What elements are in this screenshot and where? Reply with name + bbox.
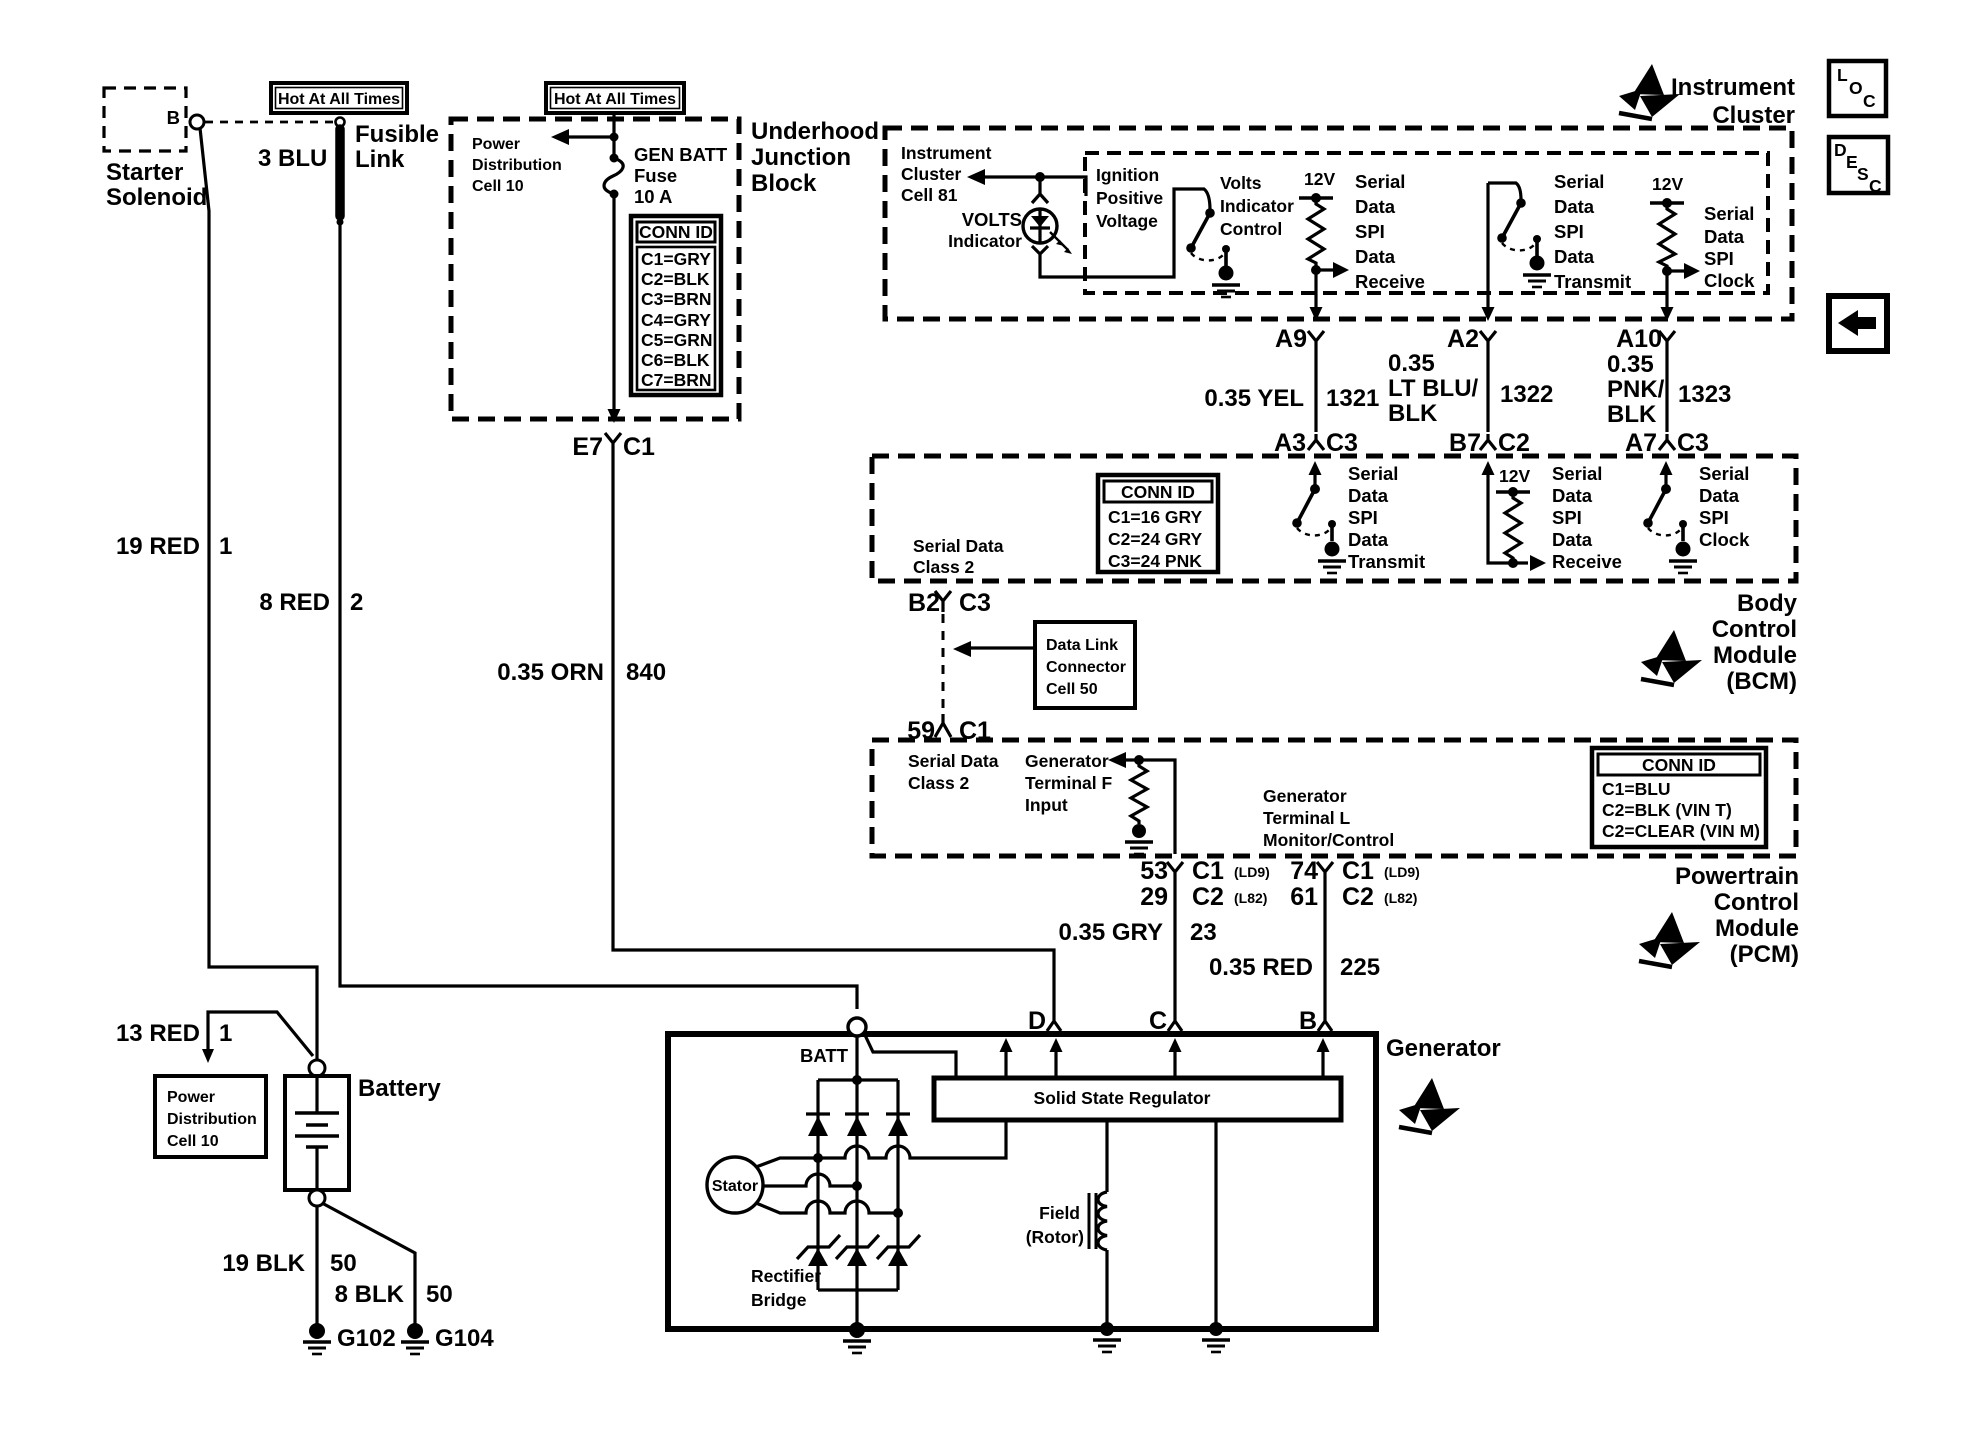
svg-text:Class 2: Class 2 (913, 557, 975, 577)
svg-text:Underhood: Underhood (751, 118, 879, 145)
svg-text:13 RED: 13 RED (116, 1020, 200, 1047)
svg-text:50: 50 (426, 1281, 453, 1308)
svg-text:C3: C3 (959, 589, 991, 617)
svg-text:SPI: SPI (1704, 248, 1734, 269)
svg-text:2: 2 (350, 589, 363, 616)
svg-text:S: S (1857, 164, 1869, 184)
node fusible link top circle (336, 118, 345, 127)
wire 0.35 GRY 23 (1173, 883, 1176, 1012)
svg-text:C1: C1 (1342, 857, 1374, 885)
wire 8 RED from fusible link down and right to BATT (340, 222, 857, 1009)
avalanche diode lower right (877, 1235, 920, 1259)
svg-text:CONN ID: CONN ID (1642, 755, 1716, 775)
svg-text:Connector: Connector (1046, 659, 1126, 676)
wire serial data class 2 dashed (942, 614, 945, 712)
wire LED to volts control switch (1040, 189, 1210, 277)
svg-text:Transmit: Transmit (1554, 271, 1631, 292)
svg-text:0.35 YEL: 0.35 YEL (1204, 385, 1304, 412)
svg-text:A2: A2 (1447, 325, 1479, 353)
svg-text:8 BLK: 8 BLK (335, 1281, 405, 1308)
VOLTS indicator LED (1023, 209, 1057, 243)
resistor 12V serial data receive (1299, 196, 1333, 199)
svg-text:1: 1 (219, 1020, 232, 1047)
svg-text:C4=GRY: C4=GRY (641, 310, 711, 330)
svg-text:(Rotor): (Rotor) (1026, 1227, 1084, 1247)
wire 19 BLK battery to G102 (315, 1206, 318, 1324)
svg-text:C6=BLK: C6=BLK (641, 350, 710, 370)
svg-text:Data: Data (1348, 529, 1389, 550)
conn id table UJB (631, 216, 721, 395)
wire to A2 (1486, 183, 1489, 310)
fuse GEN BATT 10A (610, 154, 619, 163)
wire 13 RED tap from battery positive (208, 1012, 313, 1056)
svg-text:BLK: BLK (1388, 400, 1438, 427)
svg-text:C2: C2 (1192, 883, 1224, 911)
svg-text:Serial Data: Serial Data (913, 536, 1004, 556)
svg-text:Serial: Serial (1348, 463, 1398, 484)
svg-text:CONN ID: CONN ID (639, 222, 713, 242)
hot at all times label 2 (546, 83, 684, 113)
svg-text:C1: C1 (1192, 857, 1224, 885)
regulator ground wire (1214, 1120, 1217, 1329)
svg-text:(PCM): (PCM) (1730, 941, 1799, 968)
svg-text:Control: Control (1712, 616, 1797, 643)
wire to A10 (1665, 271, 1668, 310)
regulator B stub arrow (1321, 1048, 1324, 1078)
svg-text:Generator: Generator (1025, 751, 1109, 771)
LOC reference box (1829, 61, 1886, 116)
svg-text:BLK: BLK (1607, 401, 1657, 428)
instrument cluster inner box (1085, 153, 1768, 293)
svg-text:0.35 ORN: 0.35 ORN (497, 659, 604, 686)
svg-text:0.35 RED: 0.35 RED (1209, 954, 1313, 981)
svg-text:SPI: SPI (1554, 221, 1584, 242)
svg-text:Data: Data (1552, 529, 1593, 550)
svg-text:10 A: 10 A (634, 186, 672, 207)
svg-text:Receive: Receive (1355, 271, 1425, 292)
svg-text:Stator: Stator (712, 1178, 758, 1195)
battery cell plates (315, 1076, 318, 1113)
svg-text:E: E (1846, 152, 1858, 172)
svg-text:Indicator: Indicator (948, 231, 1022, 251)
instrument cluster outer box (885, 128, 1792, 319)
wire 19 RED from solenoid down to battery (200, 128, 317, 1060)
svg-text:Cluster: Cluster (1712, 102, 1795, 129)
svg-text:Junction: Junction (751, 144, 851, 171)
power distribution cell 10 box (155, 1076, 266, 1157)
svg-text:C2=BLK: C2=BLK (641, 269, 710, 289)
svg-text:CONN ID: CONN ID (1121, 482, 1195, 502)
arrow data link connector to wire (968, 646, 1035, 649)
svg-text:BATT: BATT (800, 1045, 849, 1066)
svg-text:3 BLU: 3 BLU (258, 145, 327, 172)
svg-text:Solid State Regulator: Solid State Regulator (1034, 1088, 1211, 1108)
svg-text:Clock: Clock (1699, 529, 1750, 550)
svg-text:Module: Module (1715, 915, 1799, 942)
diode upper right (886, 1112, 910, 1115)
svg-text:0.35: 0.35 (1607, 351, 1654, 378)
svg-text:LT BLU/: LT BLU/ (1388, 375, 1479, 402)
connector at volts indicator bottom (1032, 246, 1048, 264)
svg-text:Rectifier: Rectifier (751, 1266, 821, 1286)
stator circle (707, 1157, 763, 1213)
battery negative circle (309, 1190, 325, 1206)
svg-text:Block: Block (751, 170, 817, 197)
resistor terminal F pull-up (1131, 760, 1147, 824)
stator phase A wire to regulator (756, 1120, 1006, 1167)
svg-text:23: 23 (1190, 919, 1217, 946)
svg-text:Control: Control (1714, 889, 1799, 916)
svg-text:12V: 12V (1304, 169, 1335, 189)
svg-text:Field: Field (1039, 1203, 1080, 1223)
svg-text:19 RED: 19 RED (116, 533, 200, 560)
svg-text:B: B (1299, 1007, 1317, 1035)
svg-text:C2: C2 (1498, 429, 1530, 457)
svg-text:C: C (1863, 91, 1876, 111)
svg-text:Generator: Generator (1263, 786, 1347, 806)
svg-text:C1=BLU: C1=BLU (1602, 779, 1671, 799)
svg-text:Cluster: Cluster (901, 164, 961, 184)
svg-text:C: C (1869, 176, 1882, 196)
svg-text:Terminal L: Terminal L (1263, 808, 1351, 828)
svg-text:GEN BATT: GEN BATT (634, 144, 728, 165)
svg-text:PNK/: PNK/ (1607, 376, 1665, 403)
rectifier bridge left leg (816, 1080, 819, 1290)
generator box (668, 1034, 1376, 1329)
back arrow box (1829, 296, 1887, 351)
wire 0.35 LT BLU/BLK 1322 (1486, 352, 1489, 432)
svg-text:Hot At All Times: Hot At All Times (278, 91, 400, 108)
wire 0.35 YEL 1321 (1314, 352, 1317, 432)
svg-text:Cell 10: Cell 10 (472, 178, 524, 195)
svg-text:Cell 10: Cell 10 (167, 1133, 219, 1150)
svg-text:Voltage: Voltage (1096, 211, 1158, 231)
svg-text:C2=24 GRY: C2=24 GRY (1108, 529, 1203, 549)
svg-text:Battery: Battery (358, 1075, 441, 1102)
ESD symbol PCM (1639, 912, 1700, 967)
svg-text:Serial: Serial (1699, 463, 1749, 484)
svg-text:E7: E7 (572, 433, 603, 461)
node B terminal circle (190, 115, 204, 129)
battery box (285, 1076, 349, 1190)
svg-text:Class 2: Class 2 (908, 773, 970, 793)
svg-text:C2: C2 (1342, 883, 1374, 911)
generator terminal F input arrow (1123, 760, 1175, 854)
avalanche diode lower mid (836, 1235, 879, 1259)
ESD symbol BCM (1641, 630, 1702, 685)
rectifier bridge bottom bus (818, 1288, 898, 1291)
powertrain control module box (872, 740, 1796, 856)
hot at all times label 1 (271, 83, 407, 113)
svg-text:Indicator: Indicator (1220, 196, 1294, 216)
svg-text:840: 840 (626, 659, 666, 686)
svg-text:C1=GRY: C1=GRY (641, 249, 711, 269)
svg-text:Solenoid: Solenoid (106, 184, 207, 211)
svg-text:Data: Data (1552, 485, 1593, 506)
svg-text:SPI: SPI (1355, 221, 1385, 242)
svg-text:G104: G104 (435, 1325, 494, 1352)
svg-text:C2=CLEAR (VIN M): C2=CLEAR (VIN M) (1602, 821, 1760, 841)
svg-text:50: 50 (330, 1250, 357, 1277)
wire BATT into rectifier bridge (855, 1036, 858, 1080)
svg-text:D: D (1028, 1007, 1046, 1035)
ground G102 (309, 1323, 325, 1339)
svg-text:SPI: SPI (1552, 507, 1582, 528)
wire fuse to E7 (612, 194, 615, 412)
svg-text:61: 61 (1290, 883, 1318, 911)
svg-text:SPI: SPI (1699, 507, 1729, 528)
svg-text:Distribution: Distribution (167, 1111, 257, 1128)
data link connector cell 50 box (1035, 622, 1135, 708)
resistor 12V serial data clock (1650, 201, 1684, 204)
svg-text:74: 74 (1290, 857, 1318, 885)
svg-text:Data: Data (1554, 246, 1595, 267)
avalanche diode lower left (797, 1235, 840, 1259)
svg-text:(BCM): (BCM) (1726, 668, 1797, 695)
svg-text:A3: A3 (1274, 429, 1306, 457)
switch serial data transmit (IC) (1488, 183, 1521, 200)
svg-text:Module: Module (1713, 642, 1797, 669)
svg-text:Power: Power (167, 1089, 215, 1106)
solid state regulator box (934, 1078, 1341, 1120)
svg-text:B7: B7 (1449, 429, 1481, 457)
svg-text:Serial: Serial (1554, 171, 1604, 192)
power distribution feed arrow (566, 135, 614, 138)
DESC reference box (1829, 137, 1888, 193)
svg-text:12V: 12V (1652, 174, 1683, 194)
svg-text:C3: C3 (1677, 429, 1709, 457)
wire from hot feed into junction block (612, 113, 615, 155)
svg-text:C7=BRN: C7=BRN (641, 370, 712, 390)
svg-text:12V: 12V (1499, 466, 1530, 486)
svg-text:SPI: SPI (1348, 507, 1378, 528)
svg-text:Starter: Starter (106, 159, 183, 186)
svg-text:C1=16 GRY: C1=16 GRY (1108, 507, 1203, 527)
rectifier bridge right leg (896, 1080, 899, 1290)
svg-text:Serial Data: Serial Data (908, 751, 999, 771)
regulator sense stub arrow (1004, 1048, 1007, 1078)
rectifier bridge ground wire (855, 1290, 858, 1329)
svg-text:Control: Control (1220, 219, 1282, 239)
svg-text:Monitor/Control: Monitor/Control (1263, 830, 1394, 850)
wire 8 BLK battery to G104 (322, 1203, 415, 1324)
svg-text:225: 225 (1340, 954, 1380, 981)
fusible link element (335, 129, 345, 216)
ESD symbol instrument cluster (1619, 64, 1680, 119)
svg-text:C1: C1 (623, 433, 655, 461)
svg-text:A7: A7 (1625, 429, 1657, 457)
wire 0.35 RED 225 (1323, 883, 1326, 1012)
svg-text:Distribution: Distribution (472, 157, 562, 174)
body control module box (872, 456, 1796, 581)
svg-text:L: L (1837, 65, 1848, 85)
battery positive circle (309, 1060, 325, 1076)
svg-text:Fusible: Fusible (355, 121, 439, 148)
wire 0.35 ORN 840 to generator D (613, 455, 1054, 1012)
svg-text:Positive: Positive (1096, 188, 1163, 208)
svg-text:Data: Data (1355, 246, 1396, 267)
svg-text:Data: Data (1704, 226, 1745, 247)
svg-text:Transmit: Transmit (1348, 551, 1425, 572)
regulator D stub arrow (1054, 1048, 1057, 1078)
svg-text:Data: Data (1348, 485, 1389, 506)
svg-text:B: B (167, 107, 180, 128)
stator phase B wire (763, 1174, 857, 1186)
svg-text:Data Link: Data Link (1046, 637, 1118, 654)
svg-text:Link: Link (355, 146, 405, 173)
svg-text:0.35 GRY: 0.35 GRY (1059, 919, 1164, 946)
svg-text:(L82): (L82) (1384, 890, 1417, 906)
wire to A9 (1314, 270, 1317, 310)
svg-text:C3=BRN: C3=BRN (641, 289, 712, 309)
field rotor coil (1105, 1120, 1108, 1192)
underhood junction block box (451, 119, 739, 419)
svg-text:Bridge: Bridge (751, 1290, 807, 1310)
svg-text:C2=BLK (VIN T): C2=BLK (VIN T) (1602, 800, 1732, 820)
svg-text:Hot At All Times: Hot At All Times (554, 91, 676, 108)
svg-text:Generator: Generator (1386, 1035, 1501, 1062)
svg-text:O: O (1849, 78, 1863, 98)
svg-text:1: 1 (219, 533, 232, 560)
svg-text:G102: G102 (337, 1325, 396, 1352)
serial data clock arrow (1662, 266, 1672, 276)
wire volts indicator feed (972, 177, 1086, 196)
svg-text:A9: A9 (1275, 325, 1307, 353)
stator phase C wire (756, 1201, 898, 1213)
svg-text:1321: 1321 (1326, 385, 1379, 412)
svg-text:Serial: Serial (1355, 171, 1405, 192)
svg-text:0.35: 0.35 (1388, 350, 1435, 377)
svg-text:C5=GRN: C5=GRN (641, 330, 712, 350)
svg-text:Power: Power (472, 136, 520, 153)
BATT terminal circle (848, 1018, 866, 1036)
svg-text:Serial: Serial (1704, 203, 1754, 224)
svg-text:(LD9): (LD9) (1234, 864, 1270, 880)
svg-text:Data: Data (1554, 196, 1595, 217)
wire 0.35 PNK/BLK 1323 (1665, 352, 1668, 432)
svg-text:1323: 1323 (1678, 381, 1731, 408)
svg-text:C3: C3 (1326, 429, 1358, 457)
svg-text:8 RED: 8 RED (259, 589, 330, 616)
resistor 12V serial data receive (BCM) (1488, 471, 1528, 563)
svg-text:D: D (1834, 140, 1847, 160)
svg-text:Fuse: Fuse (634, 165, 677, 186)
ground G104 (407, 1323, 423, 1339)
connector at volts indicator top (1032, 177, 1048, 203)
switch volts indicator control (1205, 208, 1215, 218)
svg-text:Terminal F: Terminal F (1025, 773, 1113, 793)
diode upper mid (845, 1112, 869, 1115)
wire BATT to regulator (864, 1033, 956, 1078)
svg-text:Data: Data (1355, 196, 1396, 217)
rectifier bridge mid leg (855, 1080, 858, 1290)
svg-text:Serial: Serial (1552, 463, 1602, 484)
svg-text:Powertrain: Powertrain (1675, 863, 1799, 890)
starter solenoid box (104, 88, 186, 151)
svg-text:C: C (1149, 1007, 1167, 1035)
svg-text:VOLTS: VOLTS (962, 209, 1022, 230)
svg-text:(L82): (L82) (1234, 890, 1267, 906)
svg-text:Cell 81: Cell 81 (901, 185, 958, 205)
svg-text:C3=24 PNK: C3=24 PNK (1108, 551, 1202, 571)
conn id table BCM (1098, 475, 1218, 572)
svg-text:Input: Input (1025, 795, 1068, 815)
svg-text:Ignition: Ignition (1096, 165, 1159, 185)
switch serial data transmit (BCM) (1313, 471, 1316, 489)
svg-text:A10: A10 (1616, 325, 1662, 353)
ESD symbol generator (1399, 1078, 1460, 1133)
conn id table PCM (1592, 748, 1766, 847)
diode upper left (806, 1112, 830, 1115)
svg-text:53: 53 (1140, 857, 1168, 885)
svg-text:Instrument: Instrument (1671, 74, 1795, 101)
serial data receive arrow (1311, 265, 1321, 275)
svg-text:Volts: Volts (1220, 173, 1262, 193)
svg-text:Receive: Receive (1552, 551, 1622, 572)
svg-text:Body: Body (1737, 590, 1798, 617)
svg-text:1322: 1322 (1500, 381, 1553, 408)
svg-text:19 BLK: 19 BLK (222, 1250, 305, 1277)
svg-text:Instrument: Instrument (901, 143, 992, 163)
svg-text:Data: Data (1699, 485, 1740, 506)
svg-text:Cell 50: Cell 50 (1046, 681, 1098, 698)
regulator C stub arrow (1173, 1048, 1176, 1078)
switch serial data clock (BCM) (1664, 471, 1667, 489)
svg-text:Clock: Clock (1704, 270, 1755, 291)
svg-text:29: 29 (1140, 883, 1168, 911)
rectifier bridge top bus (818, 1078, 898, 1081)
svg-text:(LD9): (LD9) (1384, 864, 1420, 880)
wire dashed from solenoid B to fusible link (205, 121, 335, 124)
